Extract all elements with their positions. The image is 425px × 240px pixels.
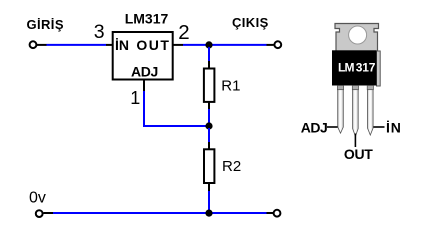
junction node B between R1 and R2	[205, 122, 212, 129]
regulator U1 LM317 box	[113, 32, 173, 80]
wire junction A to R1 top	[208, 47, 210, 61]
svg-text:LM317: LM317	[125, 11, 169, 27]
pin number 1	[130, 88, 140, 108]
pin number 2	[178, 21, 189, 44]
svg-text:R1: R1	[221, 78, 240, 95]
resistor R2	[204, 149, 214, 183]
label İN inside box	[115, 37, 129, 53]
svg-text:GİRİŞ: GİRİŞ	[27, 17, 64, 32]
leader dash İN	[374, 126, 385, 128]
value label R1	[221, 78, 240, 95]
terminal 0v output return	[274, 210, 281, 217]
node GİRİŞ label	[27, 17, 64, 32]
label LM317 above box	[125, 11, 169, 27]
pin 1 stub of U1 ADJ	[143, 81, 145, 92]
svg-text:ADJ: ADJ	[131, 63, 158, 79]
label OUT inside box	[136, 37, 170, 53]
pin stub R1 bottom	[208, 102, 210, 109]
wire R1 bottom to junction B	[208, 109, 210, 124]
wire junction B to R2 top	[208, 128, 210, 142]
package TO-220 metal tab	[335, 24, 379, 53]
label ADJ pin	[301, 119, 328, 135]
junction node A at output rail	[205, 41, 212, 48]
value label R2	[222, 158, 241, 175]
svg-text:ÇIKIŞ: ÇIKIŞ	[232, 15, 269, 30]
node ÇIKIŞ label	[232, 15, 269, 30]
svg-text:OUT: OUT	[136, 37, 170, 53]
label İN pin	[386, 119, 402, 135]
wire R2 bottom to junction C	[208, 191, 210, 212]
svg-text:1: 1	[130, 88, 140, 108]
resistor R1	[204, 69, 215, 102]
pin stub from 0v terminal	[44, 212, 54, 214]
svg-text:LM: LM	[338, 61, 355, 75]
package mounting hole	[349, 26, 367, 44]
svg-text:İN: İN	[115, 37, 129, 53]
label OUT pin	[344, 146, 373, 162]
leader dash ADJ	[327, 126, 338, 128]
svg-text:OUT: OUT	[344, 146, 373, 162]
svg-text:2: 2	[178, 21, 189, 44]
pin stub to bottom right terminal	[267, 212, 274, 214]
wire U1 ADJ to junction B	[144, 91, 206, 126]
pin 2 stub of U1	[173, 44, 184, 46]
pin stub from input terminal	[37, 44, 47, 46]
pin stub to output terminal	[267, 44, 274, 46]
pin stub R2 bottom	[208, 184, 210, 191]
wire 0v rail	[53, 212, 267, 214]
terminal ÇIKIŞ output	[274, 41, 281, 48]
pin 3 stub of U1	[106, 44, 113, 46]
package leg İN	[367, 86, 373, 136]
junction node C on 0v rail	[205, 210, 212, 217]
node 0v label	[29, 190, 46, 207]
terminal 0v ground	[36, 210, 43, 217]
pin number 3	[94, 21, 105, 43]
pin stub R1 top	[208, 61, 210, 68]
svg-text:İN: İN	[386, 119, 402, 135]
wire U1 OUT to output terminal	[183, 44, 267, 46]
svg-text:3: 3	[94, 21, 105, 43]
package leg ADJ	[337, 86, 343, 134]
svg-text:ADJ: ADJ	[301, 119, 328, 135]
package label LM 317	[338, 61, 376, 75]
package body LM317	[332, 50, 377, 85]
package side edge strip	[377, 51, 381, 86]
wire input terminal to U1 IN	[47, 44, 107, 46]
terminal GİRİŞ input	[30, 41, 37, 48]
package leg OUT	[352, 86, 358, 137]
label ADJ inside box	[131, 63, 158, 79]
leader line OUT	[354, 134, 356, 148]
svg-text:R2: R2	[222, 158, 241, 175]
pin stub R2 top	[208, 142, 210, 149]
svg-text:317: 317	[356, 61, 376, 75]
svg-text:0v: 0v	[29, 190, 46, 207]
